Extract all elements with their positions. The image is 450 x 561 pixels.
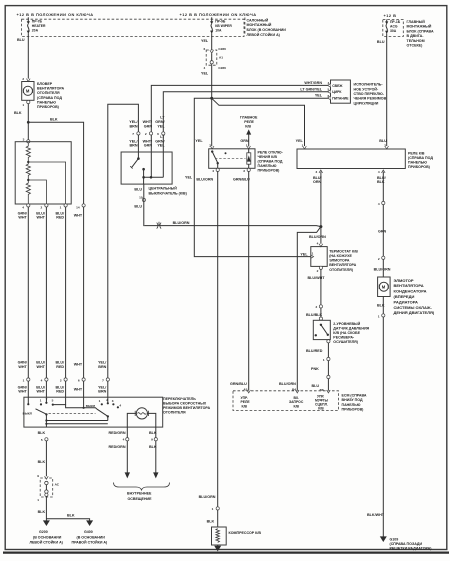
- wire BLU/BLK label: [306, 313, 323, 317]
- svg-text:GRN: GRN: [378, 229, 387, 233]
- svg-text:WHT: WHT: [36, 390, 45, 394]
- cutoff relay top pin symbols: [210, 140, 250, 149]
- svg-text:2: 2: [315, 305, 317, 309]
- wire BLK fan switch pin 5: [38, 431, 48, 442]
- svg-text:2-УРОВНЕВЫЙ: 2-УРОВНЕВЫЙ: [333, 322, 360, 326]
- svg-text:ОТОПИТЕЛЯ): ОТОПИТЕЛЯ): [329, 268, 354, 272]
- A/C switch pins 7 2 6: [132, 132, 165, 136]
- svg-text:RED: RED: [56, 365, 64, 369]
- svg-text:YEL: YEL: [185, 176, 193, 180]
- svg-text:BLU: BLU: [134, 188, 142, 192]
- svg-text:14: 14: [76, 205, 80, 209]
- svg-text:ВЫКЛЮЧАТЕЛЬ (К/В): ВЫКЛЮЧАТЕЛЬ (К/В): [149, 191, 188, 195]
- svg-text:2: 2: [317, 269, 319, 273]
- fan switch gang dashed link: [49, 413, 96, 415]
- wire BLK compressor label: [207, 519, 215, 523]
- wire BLU/ORN horizontal bus label: [173, 221, 190, 225]
- fan switch pins row: [23, 378, 110, 383]
- wire BLU fuse1 to blower: [27, 37, 29, 80]
- svg-text:4: 4: [119, 403, 121, 407]
- svg-text:4: 4: [41, 378, 43, 382]
- svg-text:(НА КОЖУХЕ: (НА КОЖУХЕ: [329, 254, 352, 258]
- svg-text:В ДВИГА-: В ДВИГА-: [407, 34, 425, 38]
- svg-text:ЭЛМОТОРА: ЭЛМОТОРА: [329, 259, 350, 263]
- svg-text:ЦЕНТРАЛЬНЫЙ: ЦЕНТРАЛЬНЫЙ: [149, 187, 178, 191]
- wire BLU/RED pressure switch to connector: [327, 340, 330, 358]
- fuse F3 30A: [385, 20, 388, 37]
- wire YEL C286 to junction label: [201, 72, 209, 76]
- ECM caption: [342, 394, 367, 412]
- svg-text:9: 9: [37, 474, 39, 478]
- svg-text:М: М: [382, 285, 386, 290]
- svg-text:СИСТЕМЫ ОХЛАЖ-: СИСТЕМЫ ОХЛАЖ-: [394, 305, 433, 310]
- svg-text:ВЕНТИЛЯТОРА: ВЕНТИЛЯТОРА: [394, 283, 424, 288]
- wire GRN/BLU cutoff relay to ECM: [248, 171, 250, 390]
- bottom page edge line: [3, 551, 449, 553]
- svg-text:BLU/ORN: BLU/ORN: [173, 221, 190, 225]
- svg-text:ВЫКЛ: ВЫКЛ: [23, 412, 32, 416]
- wire BLU/ORN relay pin3 label: [313, 176, 322, 184]
- svg-text:ПРИБОРОВ): ПРИБОРОВ): [258, 169, 281, 173]
- blower motor M1 pin 1: [22, 100, 30, 106]
- svg-text:BLU: BLU: [17, 38, 25, 42]
- svg-text:7: 7: [132, 132, 134, 136]
- svg-text:1: 1: [312, 252, 314, 256]
- wire YEL junction down to cutoff relay pin2: [211, 98, 213, 146]
- svg-text:3: 3: [112, 399, 114, 403]
- connector pin 14 on BLK column: [76, 204, 85, 210]
- A/C switch internals: [130, 157, 163, 184]
- svg-text:YEL: YEL: [157, 144, 165, 148]
- connector 4 on condenser fan wire: [378, 201, 385, 205]
- svg-text:К/В: К/В: [245, 125, 251, 129]
- wire BLK blower to resistor: [27, 104, 29, 140]
- wire labels below resistor: [18, 211, 83, 219]
- svg-text:С286: С286: [218, 47, 226, 51]
- svg-text:ЛЕВОЙ СТОЙКИ А): ЛЕВОЙ СТОЙКИ А): [247, 33, 281, 37]
- inline connector on BLU/ORN bus: [157, 222, 161, 229]
- svg-text:YEL: YEL: [296, 139, 304, 143]
- svg-text:ПИТАНИЕ: ПИТАНИЕ: [332, 96, 349, 100]
- fan switch contacts group B: [99, 398, 122, 409]
- wire BLU fuse3 to AC relay pin2: [386, 37, 388, 147]
- A/C cutoff relay box: [209, 149, 255, 169]
- wires pins into fan switch box: [28, 381, 108, 408]
- resistor bottom pins 4 2 1: [22, 204, 67, 210]
- svg-text:BLK/WHT: BLK/WHT: [367, 513, 385, 517]
- svg-text:ОТОПИТЕЛЯ: ОТОПИТЕЛЯ: [37, 91, 60, 95]
- svg-text:YEL: YEL: [300, 252, 308, 256]
- wire YEL junction to actuator: [212, 97, 331, 99]
- wire BLU fuse3 label: [377, 40, 385, 44]
- svg-text:РЕЖИМОВ ВЕНТИЛЯТОРА: РЕЖИМОВ ВЕНТИЛЯТОРА: [163, 406, 210, 410]
- wire BLK branch right label: [50, 117, 58, 121]
- wire BLU/ORN branch to ECM input: [297, 227, 321, 390]
- wire BLU A/C switch output labels: [134, 188, 142, 209]
- A/C compressor clutch coil: [212, 527, 227, 545]
- svg-text:СТВО ПЕРЕКЛЮ-: СТВО ПЕРЕКЛЮ-: [354, 92, 385, 96]
- wire BLU/ORN junction to thermostat pin4: [319, 227, 323, 247]
- wire YEL/BRN loop from A/C switch: [108, 104, 139, 378]
- svg-text:ДЕНИЯ ДВИГАТЕЛЯ): ДЕНИЯ ДВИГАТЕЛЯ): [394, 310, 435, 315]
- compressor caption: [229, 531, 262, 535]
- A/C thermostat box: [311, 247, 327, 267]
- fuse F1 value label: [32, 19, 46, 32]
- wire BLU/ORN horizontal bus: [144, 226, 321, 227]
- pressure switch caption: [333, 322, 369, 344]
- lamp leads: [127, 413, 156, 437]
- wire BLU switch to BLU/ORN bus: [143, 184, 146, 226]
- cutoff relay top labels: [195, 139, 249, 148]
- wire BLU/RED label: [306, 349, 323, 353]
- engine fuse box caption: [407, 20, 434, 48]
- svg-text:9: 9: [151, 438, 153, 442]
- svg-text:BLU/ORN: BLU/ORN: [374, 268, 391, 272]
- wire YEL C286 down to junction node: [211, 64, 213, 98]
- recirculation actuator box: [331, 80, 351, 103]
- heater fan switch box: [24, 397, 163, 427]
- svg-text:ПАНЕЛЬЮ: ПАНЕЛЬЮ: [342, 403, 361, 407]
- fan switch wire labels above pins: [18, 361, 107, 369]
- wire WHT/GRN bus to actuator: [151, 85, 330, 133]
- resistor pack pin 3: [23, 137, 30, 143]
- svg-text:BLU: BLU: [134, 205, 142, 209]
- wire BLK bridge between grounds label: [67, 513, 75, 517]
- svg-text:ВЕНТИЛЯТОРА: ВЕНТИЛЯТОРА: [329, 263, 356, 267]
- ECM pin labels: [230, 382, 296, 391]
- svg-text:3: 3: [23, 137, 25, 141]
- svg-text:+12 В: +12 В: [384, 13, 397, 18]
- svg-text:1: 1: [23, 378, 25, 382]
- svg-text:+12 В В ПОЛОЖЕНИИ ON КЛЮЧА: +12 В В ПОЛОЖЕНИИ ON КЛЮЧА: [180, 12, 257, 17]
- svg-text:BRN: BRN: [98, 365, 106, 369]
- svg-text:2: 2: [145, 132, 147, 136]
- svg-text:ВЫКЛ: ВЫКЛ: [86, 404, 95, 408]
- wire YEL label at thermostat: [300, 252, 313, 259]
- svg-text:РЕЛЕ ОТКЛЮ-: РЕЛЕ ОТКЛЮ-: [258, 151, 284, 155]
- svg-text:+12 В В ПОЛОЖЕНИИ ON КЛЮЧА: +12 В В ПОЛОЖЕНИИ ON КЛЮЧА: [17, 12, 94, 17]
- svg-text:GRN/BLU: GRN/BLU: [233, 178, 250, 182]
- svg-text:МОНТАЖНЫЙ: МОНТАЖНЫЙ: [247, 23, 272, 27]
- wire BLK condenser label: [377, 303, 385, 307]
- wires pins into A/C switch box: [138, 135, 163, 177]
- svg-text:6: 6: [157, 132, 159, 136]
- wire BLU/ORN cutoff relay to compressor: [217, 171, 219, 506]
- svg-text:WHT: WHT: [18, 365, 27, 369]
- svg-text:4: 4: [317, 242, 319, 246]
- svg-text:ЦИРКУЛЯЦИИ: ЦИРКУЛЯЦИИ: [354, 101, 379, 105]
- thermostat caption: [329, 249, 358, 271]
- svg-text:BLU/ORN: BLU/ORN: [309, 235, 326, 239]
- node YEL main junction: [210, 97, 213, 100]
- wire BLU/BLK condenser fan from relay pin4: [382, 172, 384, 202]
- fuse F2 value label: [215, 19, 232, 32]
- svg-text:ПР-9Б: ПР-9Б: [215, 19, 226, 23]
- svg-text:WHT: WHT: [74, 214, 83, 218]
- svg-text:ОТСЕКЕ): ОТСЕКЕ): [407, 44, 424, 48]
- svg-text:ЕСМ (СПРАВА: ЕСМ (СПРАВА: [342, 394, 367, 398]
- svg-text:BLK: BLK: [14, 111, 22, 115]
- svg-text:(ВПЕРЕДИ: (ВПЕРЕДИ: [394, 294, 415, 299]
- svg-text:(СПРАВА ПОД: (СПРАВА ПОД: [408, 156, 433, 160]
- ECM internal text AC request: [289, 396, 304, 409]
- wire GRN condenser label: [378, 229, 387, 233]
- svg-text:ПРИБОРОВ): ПРИБОРОВ): [342, 407, 365, 411]
- svg-text:BLU: BLU: [377, 40, 385, 44]
- svg-text:YEL: YEL: [315, 94, 323, 98]
- svg-text:BLK: BLK: [38, 431, 46, 435]
- A/C relay bottom pins 3 4: [315, 170, 385, 174]
- svg-text:ОТОПИТЕЛЯ: ОТОПИТЕЛЯ: [163, 411, 186, 415]
- wire BLU/ORN relay pin3 to junction: [320, 172, 322, 227]
- svg-text:КВ WIPER: КВ WIPER: [215, 24, 232, 28]
- svg-text:К/В: К/В: [318, 407, 324, 411]
- actuator wire labels: [300, 81, 329, 98]
- svg-text:ЧЕНИЯ РЕЖИМОВ: ЧЕНИЯ РЕЖИМОВ: [354, 97, 387, 101]
- A/C relay caption: [408, 151, 433, 169]
- svg-text:ЧЕНИЯ К/В: ЧЕНИЯ К/В: [258, 155, 278, 159]
- svg-text:4: 4: [328, 81, 330, 85]
- A/C relay top labels: [296, 139, 389, 149]
- svg-text:АС: АС: [55, 482, 60, 486]
- svg-text:ПР-1Б: ПР-1Б: [390, 20, 401, 24]
- svg-text:2: 2: [106, 398, 108, 402]
- wire BLK switch to inline connector: [45, 441, 47, 477]
- fan switch caption: [163, 397, 210, 415]
- svg-text:YEL: YEL: [195, 139, 203, 143]
- wire BLU/WHT column: [45, 207, 47, 378]
- svg-text:RED/GRN: RED/GRN: [109, 445, 126, 449]
- +12V header right: [384, 13, 397, 18]
- svg-text:МОНТАЖНЫЙ: МОНТАЖНЫЙ: [407, 25, 432, 29]
- svg-text:YEL: YEL: [201, 39, 209, 43]
- svg-text:М: М: [26, 89, 30, 94]
- svg-text:1: 1: [99, 399, 101, 403]
- +12V header middle: [180, 12, 257, 17]
- wire BLU/ORN condenser label: [374, 268, 391, 272]
- svg-text:4: 4: [22, 205, 24, 209]
- svg-text:1: 1: [378, 314, 380, 318]
- svg-text:BLU/ORN: BLU/ORN: [279, 382, 296, 386]
- fan switch output bus wires: [45, 414, 108, 427]
- node BLU/ORN junction: [319, 225, 322, 228]
- svg-text:1: 1: [40, 399, 42, 403]
- blower motor caption: [37, 82, 64, 109]
- A/C switch wire labels below pins: [129, 135, 165, 148]
- svg-text:BLU: BLU: [379, 139, 387, 143]
- fan switch lever B (OFF): [86, 404, 109, 417]
- wire BLU fuse1 label: [17, 38, 25, 42]
- svg-text:СВЕЖ: СВЕЖ: [332, 84, 343, 88]
- svg-text:БЛОК (В ОСНОВАНИИ: БЛОК (В ОСНОВАНИИ: [247, 28, 287, 32]
- svg-text:БЛОК (СПРАВА: БЛОК (СПРАВА: [407, 29, 434, 33]
- wire BLU/ORN junction to thermostat label: [309, 235, 326, 239]
- fuse F1 HEATER 20A: [27, 17, 30, 36]
- svg-text:10А: 10А: [215, 28, 222, 32]
- thermostat pin 2: [317, 266, 323, 273]
- svg-text:ORN: ORN: [313, 180, 322, 184]
- svg-text:BLK: BLK: [50, 117, 58, 121]
- svg-text:G200: G200: [39, 530, 48, 534]
- connector on pressure chain lower: [327, 375, 330, 378]
- svg-text:ОСВЕЩЕНИЕ: ОСВЕЩЕНИЕ: [128, 497, 153, 501]
- svg-text:G109: G109: [390, 537, 399, 541]
- svg-text:2: 2: [22, 77, 24, 81]
- svg-text:6: 6: [78, 378, 80, 382]
- engine compartment fuse box (dashed): [383, 20, 404, 37]
- svg-text:РЕШЕТКИ РАДИАТОРА): РЕШЕТКИ РАДИАТОРА): [390, 547, 433, 551]
- actuator pin symbols: [328, 84, 331, 100]
- svg-text:1: 1: [212, 507, 214, 511]
- wire BLK blower to node label: [14, 111, 22, 115]
- A/C pressure switch box: [313, 320, 330, 339]
- svg-text:WHT: WHT: [36, 365, 45, 369]
- fuse F2 A/C WIPER 10A: [210, 17, 213, 36]
- cutoff relay caption: [258, 151, 284, 173]
- svg-text:7: 7: [46, 397, 48, 401]
- cutoff relay internals: [211, 149, 251, 169]
- thermostat pin 4: [317, 242, 319, 246]
- svg-text:ПАНЕЛЬЮ: ПАНЕЛЬЮ: [258, 164, 277, 168]
- svg-text:WHT: WHT: [18, 216, 27, 220]
- svg-text:7: 7: [102, 378, 104, 382]
- wire BLK bridge to G400: [46, 519, 89, 521]
- svg-text:ПАНЕЛЬЮ: ПАНЕЛЬЮ: [408, 161, 427, 165]
- svg-text:КОНДЕНСАТОРА: КОНДЕНСАТОРА: [394, 289, 427, 294]
- svg-text:ТЕРМОСТАТ К/В: ТЕРМОСТАТ К/В: [329, 249, 358, 253]
- svg-text:ЛЕВОЙ СТОЙКИ А): ЛЕВОЙ СТОЙКИ А): [30, 541, 64, 545]
- wire BLU/ORN cutoff pin4 label: [196, 178, 213, 182]
- wire BLU/ORN to condenser motor: [382, 259, 384, 277]
- svg-text:1: 1: [37, 498, 39, 502]
- wire BLU/WHT thermostat label: [308, 276, 326, 280]
- connector 1 on condenser ground wire: [378, 314, 385, 319]
- svg-text:4: 4: [378, 202, 380, 206]
- connector C286 (in-line pair): [206, 50, 217, 65]
- wire BLK branch to column 14: [28, 122, 83, 203]
- wire PNK to connector: [327, 361, 329, 376]
- wire YEL fuse2 label: [201, 39, 209, 43]
- svg-text:ДАТЧИК ДАВЛЕНИЯ: ДАТЧИК ДАВЛЕНИЯ: [333, 326, 369, 330]
- svg-text:1: 1: [60, 205, 62, 209]
- ground G200: [43, 520, 50, 526]
- svg-text:4: 4: [378, 170, 380, 174]
- svg-text:А1: А1: [219, 56, 223, 60]
- lamp pin 4: [109, 431, 129, 441]
- wire PNK label: [311, 367, 319, 371]
- wire GRN to connector 2: [382, 205, 384, 257]
- svg-text:WHT: WHT: [36, 216, 45, 220]
- fan switch step wire 5 to right group: [53, 405, 97, 410]
- svg-text:BRN: BRN: [130, 124, 138, 128]
- wire YEL fuse2 to connector C286: [211, 37, 213, 51]
- svg-text:К/В (НА СКОБЕ: К/В (НА СКОБЕ: [333, 331, 360, 335]
- svg-text:ВЕНТИЛЯТОРА: ВЕНТИЛЯТОРА: [37, 87, 64, 91]
- blower motor M1 pin 2: [22, 77, 30, 81]
- fan switch wire labels below pins: [18, 385, 107, 393]
- wire BLK connector to ground label: [38, 510, 46, 514]
- svg-text:(СПРАВА ПОЗАДИ: (СПРАВА ПОЗАДИ: [390, 542, 423, 546]
- svg-text:HEATER: HEATER: [32, 24, 46, 28]
- svg-text:ВЫБОРА СКОРОСТНЫХ: ВЫБОРА СКОРОСТНЫХ: [163, 401, 207, 405]
- svg-text:С286: С286: [218, 66, 226, 70]
- svg-text:(В ОСНОВАНИИ: (В ОСНОВАНИИ: [77, 535, 106, 539]
- wire YEL label lower on thermostat branch: [185, 176, 193, 180]
- svg-text:RED: RED: [56, 390, 64, 394]
- svg-text:4: 4: [203, 66, 205, 70]
- wire BLK to compressor: [217, 510, 219, 527]
- svg-text:ПРАВОЙ СТОЙКИ А): ПРАВОЙ СТОЙКИ А): [72, 541, 109, 545]
- svg-text:ПРИБОРОВ): ПРИБОРОВ): [408, 165, 431, 169]
- wire BLK to ground G200: [45, 496, 47, 520]
- connector C286 pin labels: [203, 47, 226, 70]
- MAIN AC RELAY reference label: [240, 115, 258, 128]
- svg-text:2: 2: [40, 205, 42, 209]
- svg-text:PNK: PNK: [311, 367, 319, 371]
- svg-text:2: 2: [378, 257, 380, 261]
- +12V header left: [17, 12, 94, 17]
- connector 2 on condenser fan wire: [378, 256, 385, 261]
- ground G400: [86, 520, 93, 526]
- svg-text:YEL: YEL: [201, 72, 209, 76]
- svg-text:САЛОННЫЙ: САЛОННЫЙ: [247, 18, 269, 22]
- svg-text:GRN/BLU: GRN/BLU: [230, 382, 247, 386]
- interior lighting brace: [114, 483, 170, 491]
- svg-text:(СПРАВА ПОД: (СПРАВА ПОД: [258, 160, 283, 164]
- svg-text:ПЕРЕКЛЮЧАТЕЛЬ: ПЕРЕКЛЮЧАТЕЛЬ: [163, 397, 196, 401]
- svg-text:BLU/RED: BLU/RED: [306, 349, 323, 353]
- svg-text:BRN: BRN: [98, 390, 106, 394]
- svg-text:ВНИЗУ ПОД: ВНИЗУ ПОД: [342, 398, 363, 402]
- svg-text:(В ОСНОВАНИИ: (В ОСНОВАНИИ: [33, 535, 62, 539]
- svg-text:4: 4: [123, 438, 125, 442]
- svg-text:WHT: WHT: [74, 363, 83, 367]
- ground G109 caption: [390, 537, 433, 550]
- svg-text:ПРИБОРОВ): ПРИБОРОВ): [37, 105, 60, 109]
- svg-text:BLK: BLK: [38, 510, 46, 514]
- svg-text:ТЕЛЬНОМ: ТЕЛЬНОМ: [407, 39, 425, 43]
- fan switch contacts group A: [27, 397, 54, 405]
- wire BLU to ECM label: [312, 384, 324, 392]
- ECM pin arrows: [247, 390, 330, 393]
- arrow to main AC relay: [246, 129, 251, 140]
- connector 1 on compressor wire: [212, 507, 220, 511]
- svg-text:ИСПОЛНИТЕЛЬ-: ИСПОЛНИТЕЛЬ-: [354, 83, 384, 87]
- ground G200 caption: [30, 530, 64, 544]
- node WHT column on step wire: [83, 407, 85, 409]
- svg-text:К/В: К/В: [242, 405, 248, 409]
- svg-text:5: 5: [328, 88, 330, 92]
- ground at compressor: [214, 545, 221, 551]
- svg-text:ГЛАВНЫЙ: ГЛАВНЫЙ: [407, 20, 426, 24]
- svg-text:ОСУШИТЕЛЯ): ОСУШИТЕЛЯ): [333, 340, 358, 344]
- cabin fuse box caption: [247, 18, 287, 36]
- wire BLK/WHT to ground label: [367, 513, 385, 517]
- cabin fuse box caption bracket: [244, 18, 246, 36]
- blower resistor pack: [15, 142, 71, 204]
- svg-text:ВНУТРЕННЕЕ: ВНУТРЕННЕЕ: [127, 491, 152, 495]
- svg-text:2: 2: [60, 378, 62, 382]
- svg-text:WHT: WHT: [18, 390, 27, 394]
- svg-text:BLK: BLK: [67, 513, 75, 517]
- svg-text:GRN: GRN: [240, 139, 249, 143]
- svg-text:30А: 30А: [390, 29, 397, 33]
- wire BLK condenser motor to connector: [382, 297, 384, 314]
- illumination lamp: [135, 408, 148, 419]
- svg-text:BLK: BLK: [207, 519, 215, 523]
- ECM internal text relay control: [241, 396, 251, 409]
- svg-text:BLK: BLK: [38, 460, 46, 464]
